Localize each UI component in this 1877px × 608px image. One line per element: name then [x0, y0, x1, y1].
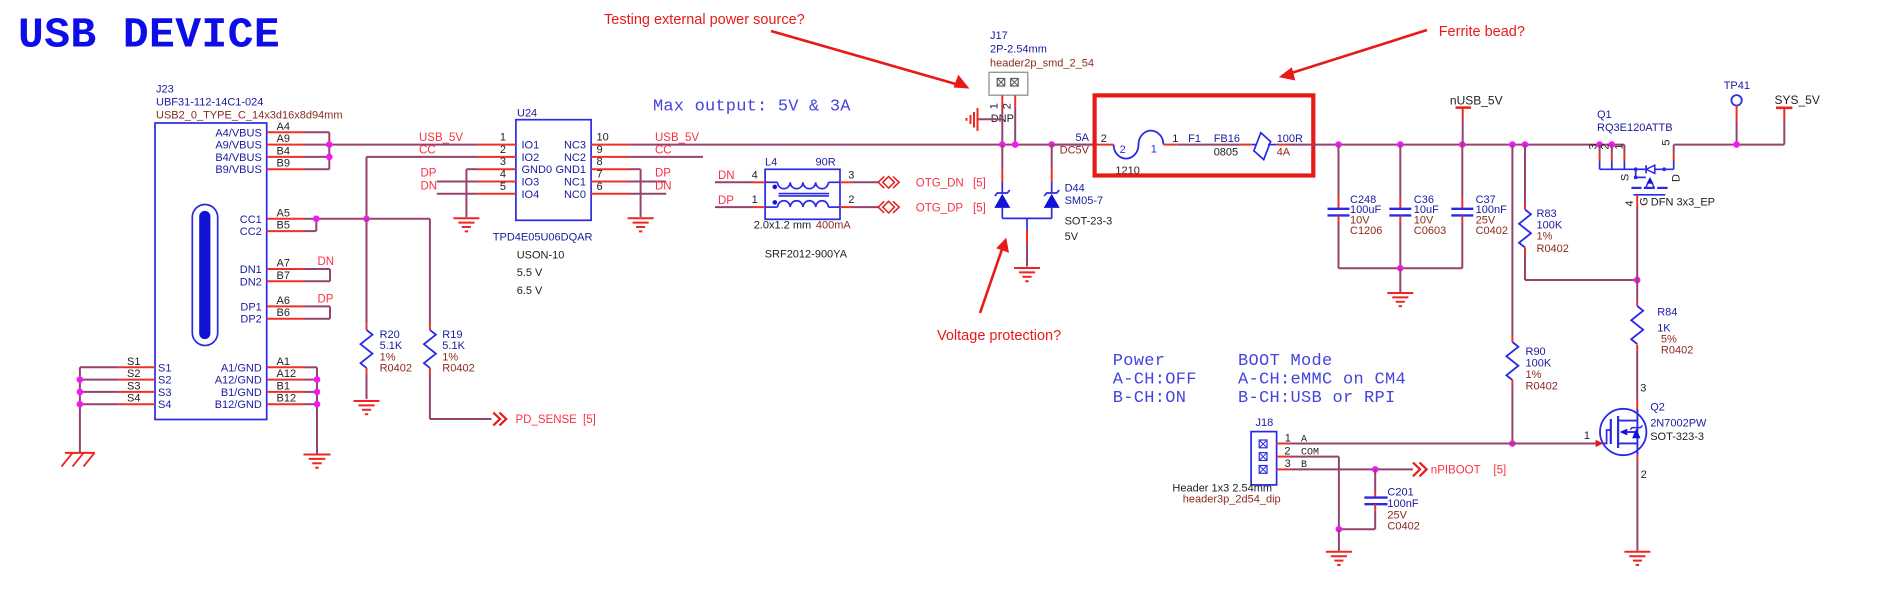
- svg-text:DN: DN: [318, 256, 335, 268]
- junction: [1733, 141, 1740, 148]
- svg-text:1: 1: [988, 103, 1000, 109]
- svg-text:USB DEVICE: USB DEVICE: [18, 11, 280, 60]
- resistor R84 1K: [1631, 300, 1693, 357]
- wire to ground: [1338, 529, 1340, 551]
- ground: [304, 454, 331, 456]
- wire TP41 to rail: [1736, 120, 1738, 144]
- ground: [1326, 551, 1352, 553]
- wire rail to C37: [1461, 145, 1463, 209]
- svg-text:header2p_smd_2_54: header2p_smd_2_54: [990, 57, 1094, 69]
- svg-text:1: 1: [1151, 144, 1157, 156]
- resistor R83 100K: [1519, 204, 1569, 255]
- svg-text:L4: L4: [765, 157, 777, 169]
- wire C37 to ground bus: [1461, 215, 1463, 268]
- svg-text:S1: S1: [158, 362, 171, 374]
- ground: [1624, 551, 1650, 553]
- highlight box around fuse and bead: [1095, 95, 1314, 175]
- J23 right-side pins: [215, 121, 305, 411]
- svg-text:C1206: C1206: [1350, 225, 1382, 237]
- svg-text:R20: R20: [380, 329, 400, 341]
- net DN into L4: [715, 170, 753, 182]
- svg-text:2: 2: [1600, 143, 1612, 149]
- net DN at J23: [305, 256, 335, 281]
- junction: [1522, 141, 1529, 148]
- svg-text:D: D: [1670, 174, 1682, 182]
- svg-text:OTG_DP: OTG_DP: [916, 202, 964, 214]
- J23 left-side shield pins S1-S4: [118, 356, 171, 411]
- svg-text:SOT-23-3: SOT-23-3: [1065, 216, 1113, 228]
- net DN into U24 pin5: [421, 180, 478, 193]
- svg-text:R0402: R0402: [1526, 381, 1558, 393]
- svg-text:TP41: TP41: [1724, 80, 1750, 92]
- note boot mode table: [1238, 352, 1406, 408]
- junction: [1634, 277, 1641, 284]
- svg-text:J17: J17: [990, 30, 1008, 42]
- junction: [1397, 265, 1404, 272]
- junction: [77, 389, 84, 396]
- junction: [999, 141, 1006, 148]
- svg-text:[5]: [5]: [973, 178, 986, 190]
- junction: [1397, 141, 1404, 148]
- junction: [1596, 141, 1603, 148]
- junction: [314, 389, 321, 396]
- junction: [1335, 141, 1342, 148]
- wire C248 to ground bus: [1338, 215, 1340, 268]
- svg-text:A9: A9: [277, 133, 290, 145]
- svg-text:B4: B4: [277, 145, 290, 157]
- wire U24 pin8 to ground: [630, 169, 641, 217]
- resistor R20 5.1K: [361, 324, 413, 375]
- svg-text:A1/GND: A1/GND: [221, 362, 262, 374]
- svg-text:A4/VBUS: A4/VBUS: [215, 127, 261, 139]
- inductor L4 SRF2012-900YA: [752, 157, 855, 261]
- svg-text:R0402: R0402: [442, 363, 474, 375]
- svg-text:DN: DN: [718, 170, 735, 182]
- junction: [1336, 526, 1343, 533]
- svg-text:2.0x1.2 mm: 2.0x1.2 mm: [754, 219, 811, 231]
- svg-text:D44: D44: [1065, 183, 1085, 195]
- svg-text:USB2_0_TYPE_C_14x3d16x8d94mm: USB2_0_TYPE_C_14x3d16x8d94mm: [156, 109, 343, 121]
- wire R20 to ground: [366, 374, 368, 399]
- svg-text:A7: A7: [277, 258, 290, 270]
- svg-text:[5]: [5]: [1493, 464, 1506, 476]
- power port SYS_5V: [1775, 93, 1820, 119]
- junction: [326, 154, 333, 161]
- svg-text:[5]: [5]: [973, 202, 986, 214]
- svg-text:0805: 0805: [1214, 146, 1238, 158]
- svg-text:2: 2: [1120, 144, 1126, 156]
- svg-text:R0402: R0402: [1661, 345, 1693, 357]
- svg-text:G: G: [1639, 197, 1651, 206]
- svg-text:5V: 5V: [1065, 231, 1079, 243]
- wire CC to R20: [366, 219, 368, 324]
- svg-text:C0402: C0402: [1476, 225, 1508, 237]
- junction: [1459, 141, 1466, 148]
- junction: [1509, 440, 1516, 447]
- svg-text:SM05-7: SM05-7: [1065, 195, 1104, 207]
- svg-text:RQ3E120ATTB: RQ3E120ATTB: [1597, 122, 1673, 134]
- svg-text:A12: A12: [277, 368, 297, 380]
- junction: [314, 401, 321, 408]
- svg-text:B-CH:USB or RPI: B-CH:USB or RPI: [1238, 389, 1396, 408]
- svg-text:A5: A5: [277, 207, 290, 219]
- fuse F? 5A 1210: [1097, 131, 1178, 177]
- svg-text:3: 3: [1285, 458, 1291, 470]
- svg-text:F1: F1: [1188, 133, 1201, 145]
- wire bead to Q1 source pins: [1289, 144, 1625, 146]
- svg-text:R83: R83: [1537, 208, 1557, 220]
- svg-text:Q2: Q2: [1650, 402, 1665, 414]
- svg-text:R90: R90: [1526, 346, 1546, 358]
- svg-text:J23: J23: [156, 83, 174, 95]
- svg-text:8: 8: [597, 156, 603, 168]
- svg-text:5.1K: 5.1K: [442, 340, 465, 352]
- ground: [1387, 292, 1413, 294]
- svg-text:A4: A4: [277, 121, 290, 133]
- ground: [628, 217, 654, 219]
- svg-text:1%: 1%: [1537, 231, 1553, 243]
- svg-text:DC5V: DC5V: [1060, 145, 1090, 157]
- svg-text:C201: C201: [1387, 487, 1413, 499]
- svg-text:NC3: NC3: [564, 140, 586, 152]
- wire J17 pin1 to rail: [1001, 108, 1003, 145]
- net nPIBOOT off-sheet: [1413, 463, 1506, 477]
- svg-text:4: 4: [752, 169, 758, 181]
- net OTG_DN harness: [878, 177, 986, 190]
- svg-text:B1: B1: [277, 380, 290, 392]
- svg-text:TPD4E05U06DQAR: TPD4E05U06DQAR: [493, 231, 593, 243]
- svg-text:CC1: CC1: [240, 214, 262, 226]
- svg-text:A-CH:eMMC on CM4: A-CH:eMMC on CM4: [1238, 371, 1406, 390]
- annotation ferrite bead: [1279, 24, 1525, 81]
- svg-text:SRF2012-900YA: SRF2012-900YA: [765, 249, 848, 261]
- junction: [313, 216, 320, 223]
- junction: [1048, 141, 1055, 148]
- wire J17 pin1 to DNP ground: [978, 118, 1003, 120]
- svg-text:DP2: DP2: [240, 314, 261, 326]
- svg-text:GND1: GND1: [555, 164, 586, 176]
- svg-text:U24: U24: [517, 108, 537, 120]
- note power channel table: [1113, 352, 1197, 408]
- connector J17 2P header: [988, 30, 1094, 125]
- svg-text:B-CH:ON: B-CH:ON: [1113, 389, 1187, 408]
- svg-text:S: S: [1619, 174, 1631, 181]
- svg-text:S4: S4: [127, 393, 140, 405]
- net DP into U24 pin4: [421, 168, 478, 182]
- svg-text:A12/GND: A12/GND: [215, 375, 262, 387]
- wire TVS common to ground: [1002, 218, 1051, 266]
- svg-text:A-CH:OFF: A-CH:OFF: [1113, 371, 1197, 390]
- ferrite bead F1 FB16 100R: [1188, 133, 1303, 160]
- svg-text:2: 2: [848, 194, 854, 206]
- svg-text:DP: DP: [421, 168, 437, 180]
- wire shield bus S1-S4: [80, 367, 118, 453]
- ground: [354, 400, 380, 402]
- ground: [1014, 267, 1040, 269]
- svg-text:USB_5V: USB_5V: [419, 132, 463, 144]
- svg-text:DN2: DN2: [240, 276, 262, 288]
- svg-text:IO3: IO3: [522, 177, 540, 189]
- diode D44 TVS SM05-7 (A): [994, 145, 1010, 219]
- svg-text:NC2: NC2: [564, 152, 586, 164]
- svg-text:4: 4: [1624, 200, 1636, 206]
- capacitor C36: [1389, 194, 1446, 237]
- svg-text:DN1: DN1: [240, 264, 262, 276]
- svg-text:S2: S2: [158, 375, 171, 387]
- wire bus to ground: [1399, 268, 1401, 292]
- svg-text:B9: B9: [277, 158, 290, 170]
- svg-text:90R: 90R: [816, 157, 836, 169]
- svg-text:DP: DP: [318, 293, 334, 305]
- svg-text:UBF31-112-14C1-024: UBF31-112-14C1-024: [156, 96, 263, 108]
- svg-text:PD_SENSE: PD_SENSE: [516, 414, 578, 426]
- svg-text:C0402: C0402: [1387, 521, 1419, 533]
- wire nUSB_5V to rail: [1462, 118, 1464, 145]
- resistor R90 100K: [1506, 336, 1558, 393]
- svg-text:Power: Power: [1113, 352, 1166, 371]
- svg-text:3: 3: [1587, 143, 1599, 149]
- wire J17 pin2 to rail: [1014, 108, 1016, 145]
- connector J23 USB type-C: [155, 83, 343, 419]
- wire R90 to J18 pin1 row: [1511, 386, 1513, 444]
- svg-text:5.1K: 5.1K: [380, 340, 403, 352]
- wire GND bus A1/A12/B1/B12: [305, 367, 318, 454]
- ground: [453, 217, 479, 219]
- ground DNP sideways: [967, 108, 978, 131]
- svg-text:7: 7: [597, 169, 603, 181]
- net DP into L4: [715, 195, 753, 207]
- svg-text:R84: R84: [1657, 307, 1677, 319]
- transistor Q1 RQ3E120ATTB: [1587, 109, 1715, 208]
- svg-text:DP: DP: [655, 168, 671, 180]
- svg-text:S4: S4: [158, 399, 171, 411]
- svg-text:S3: S3: [158, 387, 171, 399]
- junction: [1609, 141, 1616, 148]
- svg-text:10: 10: [597, 132, 609, 144]
- svg-text:S3: S3: [127, 380, 140, 392]
- svg-text:nUSB_5V: nUSB_5V: [1450, 94, 1503, 108]
- svg-text:B7: B7: [277, 270, 290, 282]
- connector J18 header 1x3: [1172, 417, 1319, 505]
- junction: [1012, 141, 1019, 148]
- svg-text:B4/VBUS: B4/VBUS: [215, 152, 261, 164]
- junction: [1509, 141, 1516, 148]
- net OTG_DP harness: [878, 201, 986, 214]
- svg-text:A9/VBUS: A9/VBUS: [215, 140, 261, 152]
- transistor Q2 2N7002PW: [1584, 402, 1707, 481]
- svg-text:A6: A6: [277, 295, 290, 307]
- svg-text:1: 1: [1172, 133, 1178, 145]
- svg-text:DP1: DP1: [240, 301, 261, 313]
- svg-text:1: 1: [1584, 430, 1590, 442]
- junction: [326, 141, 333, 148]
- svg-text:B6: B6: [277, 307, 290, 319]
- svg-text:1%: 1%: [1526, 369, 1542, 381]
- svg-text:NC0: NC0: [564, 189, 586, 201]
- power port nUSB_5V: [1450, 94, 1503, 118]
- capacitor C248: [1328, 194, 1383, 237]
- capacitor C37: [1451, 194, 1508, 237]
- junction: [1372, 466, 1379, 473]
- svg-text:J18: J18: [1256, 417, 1274, 429]
- svg-text:R0402: R0402: [1537, 243, 1569, 255]
- svg-text:4A: 4A: [1277, 146, 1291, 158]
- wire J18 row to Q2 gate: [1512, 443, 1596, 445]
- net DP at J23: [305, 293, 334, 318]
- svg-text:9: 9: [597, 144, 603, 156]
- wire rail to C36: [1399, 145, 1401, 209]
- wire rail to R90: [1511, 145, 1513, 336]
- svg-text:IO2: IO2: [522, 152, 540, 164]
- svg-text:6.5 V: 6.5 V: [517, 285, 543, 297]
- wire L4 pin3 to OTG_DN: [853, 181, 879, 183]
- svg-text:2: 2: [500, 144, 506, 156]
- svg-text:1: 1: [500, 132, 506, 144]
- svg-text:CC: CC: [655, 144, 672, 156]
- svg-text:2: 2: [1284, 445, 1290, 457]
- chassis ground: [62, 453, 95, 467]
- net CC right of U24: [630, 144, 703, 157]
- wire L4 pin2 to OTG_DP: [853, 206, 879, 208]
- svg-text:5: 5: [500, 181, 506, 193]
- svg-text:Q1: Q1: [1597, 109, 1612, 121]
- svg-text:1: 1: [752, 194, 758, 206]
- svg-text:3: 3: [500, 156, 506, 168]
- resistor R19 5.1K: [424, 324, 475, 375]
- diode D44 TVS SM05-7 (B): [1044, 145, 1113, 243]
- svg-text:5A: 5A: [1076, 132, 1090, 144]
- svg-text:2: 2: [1641, 469, 1647, 481]
- svg-text:nPIBOOT: nPIBOOT: [1431, 464, 1481, 476]
- annotation testing external power source: [604, 12, 970, 89]
- wire rail to C248: [1338, 145, 1340, 209]
- wire J18 pin3 to nPIBOOT: [1289, 468, 1413, 470]
- svg-text:1: 1: [1613, 143, 1625, 149]
- svg-text:USB_5V: USB_5V: [655, 132, 699, 144]
- svg-text:B12/GND: B12/GND: [215, 399, 262, 411]
- net DN right of U24: [630, 180, 672, 193]
- svg-text:CC: CC: [419, 144, 436, 156]
- svg-text:header3p_2d54_dip: header3p_2d54_dip: [1183, 493, 1281, 505]
- svg-text:C0603: C0603: [1414, 225, 1446, 237]
- junction: [363, 216, 370, 223]
- net PD_SENSE off-sheet: [493, 413, 595, 426]
- wire VBUS bus to USB_5V rail: [305, 132, 478, 169]
- svg-text:S2: S2: [127, 368, 140, 380]
- svg-text:DP: DP: [718, 195, 734, 207]
- svg-text:100K: 100K: [1526, 358, 1552, 370]
- wire Q1 drain rail to SYS_5V: [1674, 144, 1785, 146]
- svg-text:B1/GND: B1/GND: [221, 387, 262, 399]
- wire SYS_5V to rail: [1783, 119, 1785, 145]
- svg-text:3: 3: [848, 169, 854, 181]
- wire R83 to gate node: [1525, 254, 1637, 281]
- svg-text:Ferrite bead?: Ferrite bead?: [1439, 24, 1525, 40]
- svg-text:1%: 1%: [380, 351, 396, 363]
- svg-text:DN: DN: [421, 180, 438, 192]
- svg-text:B12: B12: [277, 393, 297, 405]
- svg-text:100nF: 100nF: [1387, 498, 1418, 510]
- svg-text:DFN 3x3_EP: DFN 3x3_EP: [1651, 196, 1715, 208]
- svg-text:USON-10: USON-10: [517, 249, 565, 261]
- wire fuse to bead: [1178, 144, 1240, 146]
- svg-text:FB16: FB16: [1214, 133, 1240, 145]
- svg-text:Testing external power source?: Testing external power source?: [604, 12, 805, 28]
- svg-text:Voltage protection?: Voltage protection?: [937, 328, 1061, 344]
- svg-text:IO1: IO1: [522, 140, 540, 152]
- wire C36 to ground bus: [1399, 215, 1401, 268]
- svg-text:SYS_5V: SYS_5V: [1775, 93, 1820, 107]
- wire Q1 gate to R84: [1636, 207, 1638, 300]
- svg-text:R0402: R0402: [380, 363, 412, 375]
- svg-text:5: 5: [1661, 139, 1673, 145]
- svg-text:2P-2.54mm: 2P-2.54mm: [990, 43, 1047, 55]
- svg-text:3: 3: [1640, 382, 1646, 394]
- wire USB_5V rail U24 to fuse: [630, 144, 1097, 146]
- svg-text:2: 2: [1101, 133, 1107, 145]
- svg-text:6: 6: [597, 181, 603, 193]
- svg-text:BOOT Mode: BOOT Mode: [1238, 352, 1333, 371]
- svg-text:A1: A1: [277, 356, 290, 368]
- net DP right of U24: [630, 168, 671, 182]
- svg-text:IO4: IO4: [522, 189, 540, 201]
- wire J18 pin1 to R90 node: [1289, 443, 1512, 445]
- net DC5V label: [1060, 132, 1090, 157]
- svg-text:CC2: CC2: [240, 226, 262, 238]
- junction: [77, 376, 84, 383]
- wire U24 pin3 to ground: [466, 169, 477, 217]
- svg-text:OTG_DN: OTG_DN: [916, 178, 964, 190]
- svg-text:S1: S1: [127, 356, 140, 368]
- wire rail to fuse: [1052, 144, 1097, 146]
- wire C201 to ground bus: [1339, 504, 1375, 529]
- svg-text:R19: R19: [442, 329, 462, 341]
- svg-text:100R: 100R: [1277, 133, 1303, 145]
- svg-text:SOT-323-3: SOT-323-3: [1650, 431, 1704, 443]
- wire CC net from CC1/CC2: [305, 157, 478, 231]
- junction: [77, 401, 84, 408]
- svg-text:DN: DN: [655, 180, 672, 192]
- svg-text:NC1: NC1: [564, 177, 586, 189]
- svg-text:B5: B5: [277, 220, 290, 232]
- svg-text:GND0: GND0: [522, 164, 553, 176]
- junction: [314, 376, 321, 383]
- wire R19 to PD_SENSE: [430, 374, 492, 419]
- svg-text:[5]: [5]: [583, 414, 596, 426]
- svg-text:25V: 25V: [1387, 509, 1407, 521]
- svg-text:400mA: 400mA: [816, 219, 852, 231]
- svg-text:2N7002PW: 2N7002PW: [1650, 418, 1707, 430]
- capacitor C201 100nF: [1364, 487, 1419, 533]
- IC U24 TPD4E05U06DQAR: [477, 108, 630, 297]
- svg-text:B9/VBUS: B9/VBUS: [215, 164, 261, 176]
- wire CC to R19: [429, 219, 431, 324]
- svg-text:4: 4: [500, 169, 506, 181]
- svg-text:1%: 1%: [442, 351, 458, 363]
- svg-text:Max output: 5V & 3A: Max output: 5V & 3A: [653, 98, 851, 117]
- annotation voltage protection: [937, 238, 1061, 344]
- wire nPIBOOT node to C201: [1374, 469, 1376, 497]
- wire R84 to Q2 drain: [1637, 351, 1646, 410]
- wire Q2 source to ground: [1636, 455, 1638, 551]
- svg-text:5.5 V: 5.5 V: [517, 267, 543, 279]
- testpoint TP41: [1724, 80, 1750, 120]
- wire rail to R83: [1524, 145, 1526, 204]
- wire capacitor ground bus: [1339, 267, 1463, 269]
- wire J18 pin2 COM to ground: [1289, 457, 1339, 530]
